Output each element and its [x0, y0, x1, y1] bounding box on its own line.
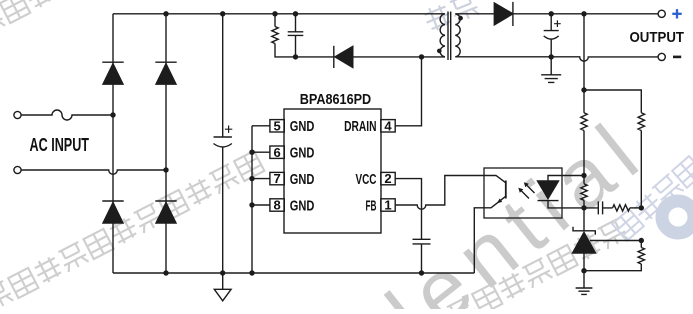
optocoupler phototransistor	[484, 176, 506, 183]
plus sign at OUTPUT +	[672, 9, 681, 18]
watermark chinese company name fragment, top-left corner	[0, 0, 56, 37]
optocoupler U2 body	[484, 168, 562, 218]
svg-text:5: 5	[273, 118, 280, 133]
svg-text:6: 6	[273, 145, 280, 160]
ground: TL431 / divider ground	[583, 271, 585, 288]
ground: output cap ground	[550, 57, 552, 75]
svg-text:DRAIN: DRAIN	[344, 119, 376, 135]
transformer T1 core	[448, 12, 451, 61]
wire: stub to pin 6	[252, 151, 270, 153]
svg-text:BPA8616PD: BPA8616PD	[300, 92, 372, 108]
watermark chinese fragment, right edge (blue tint)	[612, 156, 693, 241]
resistor R5 (compensation series)	[613, 205, 630, 211]
capacitor C1 (bulk electrolytic)	[222, 14, 224, 137]
wire: VCC pin 2 down to decoupling cap	[395, 179, 421, 240]
svg-text:GND: GND	[290, 172, 315, 188]
resistor R1 (RCD clamp)	[274, 14, 276, 27]
svg-text:VCC: VCC	[356, 172, 377, 188]
svg-text:8: 8	[273, 198, 280, 213]
op IC U1 BPA8616PD body	[284, 109, 381, 233]
capacitor C4 (output electrolytic)	[544, 14, 559, 31]
diode D2 (bridge, upper-right)	[155, 61, 176, 63]
wire: TL431 reference tab to divider mid	[590, 240, 641, 242]
svg-text:1: 1	[384, 198, 391, 213]
diode D1 (bridge, upper-left)	[102, 61, 123, 63]
watermark chinese company name, lower-right diagonal	[420, 218, 628, 314]
transformer T1 secondary winding	[455, 14, 460, 57]
wire: FB pin 1 to optocoupler collector, hop over VCC wire	[395, 176, 484, 210]
resistor R6 (right divider lower)	[640, 241, 642, 248]
wire: DRAIN pin 4 to transformer primary	[395, 57, 421, 126]
transformer T1 primary winding	[440, 14, 445, 57]
svg-text:GND: GND	[290, 119, 315, 135]
wire: output negative rail with hop at feedback line	[455, 57, 658, 61]
pin 7 box (GND)	[270, 172, 284, 184]
terminal: OUTPUT -	[658, 53, 665, 60]
svg-text:OUTPUT: OUTPUT	[630, 30, 685, 46]
optocoupler LED D7	[538, 181, 559, 199]
wire: LED anode out of opto to divider	[548, 176, 584, 182]
wire: clamp to drain node	[353, 56, 445, 58]
wire: bottom return bus	[113, 272, 474, 274]
svg-text:FB: FB	[366, 198, 377, 214]
svg-text:GND: GND	[290, 198, 315, 214]
wire: top DC bus from bridge to transformer primary	[113, 13, 445, 15]
capacitor C5 (compensation)	[584, 201, 613, 214]
watermark chinese company name, lower-left diagonal	[0, 151, 264, 312]
transformer secondary phase dot	[458, 16, 463, 21]
wire: opto emitter to primary gnd bus	[474, 208, 484, 273]
pin 1 box	[381, 199, 395, 211]
svg-text:AC INPUT: AC INPUT	[30, 135, 90, 155]
TL431 U3 shunt regulator	[583, 208, 585, 231]
ground: chassis ground under bulk cap	[222, 273, 224, 289]
wire: left bridge leg	[112, 14, 114, 273]
svg-text:GND: GND	[290, 146, 315, 162]
svg-text:2: 2	[384, 171, 391, 186]
pin 2 box	[381, 172, 395, 184]
wire: output positive rail	[513, 13, 658, 15]
minus sign at OUTPUT -	[673, 56, 681, 59]
wire: GND pin bus left of IC	[251, 126, 253, 273]
terminal: AC input line 2	[14, 166, 21, 173]
watermark chinese fragment, top-middle near transformer	[422, 0, 480, 33]
wire: LED cathode out of opto to TL431 cathode node	[548, 201, 584, 208]
resistor R4 (parallel with opto LED)	[583, 176, 585, 184]
wire: right bridge leg	[165, 14, 167, 273]
diode D6 (output rectifier)	[494, 3, 513, 25]
capacitor C2 (RCD clamp)	[288, 14, 304, 57]
resistor R2 (opto series, from OUT+)	[583, 90, 585, 113]
diode D3 (bridge, lower-left)	[102, 200, 123, 202]
transformer primary phase dot	[437, 49, 442, 54]
pin 6 box (GND)	[270, 146, 284, 158]
pin 5 box (GND)	[270, 120, 284, 132]
terminal: AC input line 1	[14, 111, 21, 118]
capacitor C3 (VCC decoupling)	[413, 239, 431, 273]
wire: AC line 2 with hop over left bridge leg	[21, 170, 166, 174]
resistor R3 (right divider upper)	[638, 113, 644, 131]
svg-text:7: 7	[273, 171, 280, 186]
fuse F1	[21, 110, 113, 120]
wire: OUTPUT+ sense line down	[583, 14, 585, 90]
diode D5 (RCD clamp)	[296, 56, 334, 58]
svg-text:4: 4	[384, 118, 392, 133]
terminal: OUTPUT +	[658, 10, 665, 17]
wire: branch to second divider	[584, 90, 641, 113]
wire: stub to pin 8	[252, 204, 270, 206]
wire: stub to pin 7	[252, 178, 270, 180]
diode D4 (bridge, lower-right)	[155, 200, 176, 202]
pin 8 box (GND)	[270, 199, 284, 211]
watermark letter o ring, right edge	[662, 201, 693, 233]
wire: secondary top lead	[455, 13, 494, 15]
pin 4 box	[381, 120, 395, 132]
optocoupler light arrows	[520, 184, 535, 199]
wire: stub to pin 5	[252, 125, 270, 127]
